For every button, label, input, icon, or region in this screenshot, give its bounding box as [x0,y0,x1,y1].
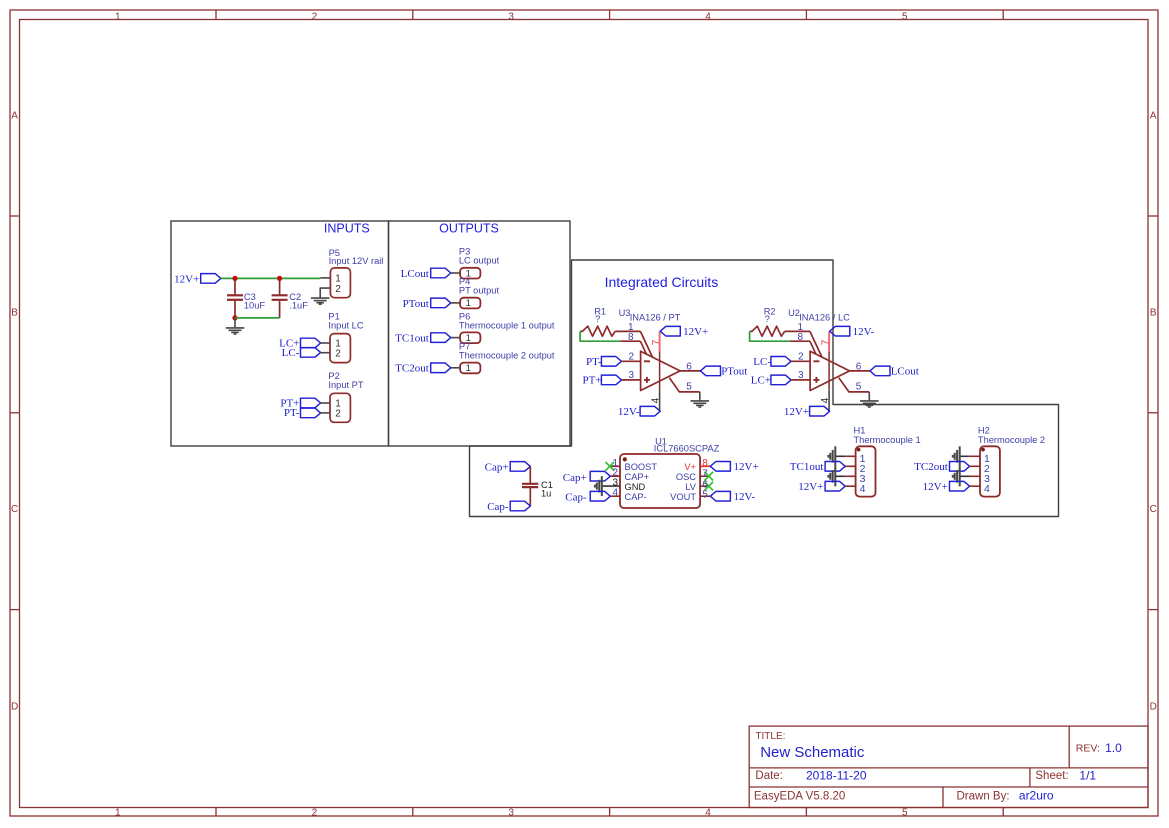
svg-text:GND: GND [625,482,646,492]
connector P7 [460,363,480,374]
pin 4 wire [828,390,830,411]
pin 2 stub [845,465,855,467]
svg-text:1: 1 [466,298,471,309]
svg-text:1: 1 [115,11,121,22]
svg-text:4: 4 [860,483,866,495]
svg-text:12V+: 12V+ [784,406,809,418]
pin 4 stub [610,495,620,497]
svg-text:5: 5 [902,808,908,819]
pin 1 stub [845,455,855,457]
svg-text:Sheet:: Sheet: [1035,770,1068,782]
svg-text:Input LC: Input LC [328,321,363,331]
pin 7 stub [700,475,710,477]
pin 3 wire [791,379,810,381]
svg-text:3: 3 [508,11,514,22]
svg-text:2: 2 [628,352,634,363]
svg-text:3: 3 [798,370,804,381]
wire 12V+ rail [221,277,320,279]
svg-text:PT-: PT- [586,356,602,368]
svg-text:8: 8 [628,332,634,343]
svg-text:12V-: 12V- [618,406,640,418]
pin wire P1.1 [321,342,330,344]
title block [749,726,1148,807]
svg-text:ar2uro: ar2uro [1019,789,1054,803]
svg-text:REV:: REV: [1076,743,1100,755]
svg-text:TC2out: TC2out [395,363,429,375]
svg-text:TITLE:: TITLE: [755,731,785,742]
svg-text:C: C [1150,504,1157,515]
svg-text:7: 7 [702,468,708,479]
svg-text:LCout: LCout [891,366,919,378]
svg-text:BOOST: BOOST [625,462,658,472]
ground at pin 3 (rotated) [601,476,603,496]
pin 3 wire [622,379,641,381]
svg-text:PTout: PTout [403,298,429,310]
resistor R1 [580,326,615,336]
svg-text:10uF: 10uF [244,301,266,311]
ground at pin 1 (rotated) [834,446,836,466]
svg-text:12V-: 12V- [853,326,875,338]
svg-text:New Schematic: New Schematic [760,744,865,761]
pin 2 stub [970,465,980,467]
pin 1 marker dot [623,457,627,461]
svg-text:Cap-: Cap- [487,501,509,513]
svg-text:?: ? [765,314,770,324]
Integrated Circuits region box [470,260,1059,517]
pin 6 wire [850,370,870,372]
connector P3 [460,268,480,279]
svg-text:4: 4 [705,808,711,819]
net flag LCout at pin 6 [870,366,890,376]
no-connect X at pin 7 [705,472,714,481]
capacitor C2 [279,278,281,294]
plus symbol [813,379,819,381]
svg-text:5: 5 [686,382,692,393]
wire P5.2 to ground [320,288,330,298]
pin 1 stub [970,455,980,457]
wire pin 1 to ground [836,455,845,457]
pin 4 stub [970,485,980,487]
svg-text:Thermocouple 2: Thermocouple 2 [978,435,1045,445]
pin 6 stub [700,485,710,487]
junction at C2 top [277,276,282,281]
wire pin 1 to ground [960,455,969,457]
connector P4 [460,298,480,309]
pin 1 marker dot [857,448,861,452]
pin 7 highlighted segment [659,331,661,351]
svg-text:12V+: 12V+ [734,461,759,473]
net flag PTout at pin 6 [700,366,720,376]
svg-text:1: 1 [115,808,121,819]
plus symbol [644,379,650,381]
pin 6 wire [680,370,700,372]
pin 7 / pin 4 vertical wire [828,352,830,391]
svg-text:TC1out: TC1out [395,333,429,345]
pin wire P2.1 [321,402,330,404]
svg-text:A: A [11,111,18,122]
svg-text:12V+: 12V+ [683,326,708,338]
svg-text:D: D [11,702,18,713]
svg-text:5: 5 [902,11,908,22]
pin 5 wire [669,378,700,392]
svg-text:12V+: 12V+ [174,273,199,285]
svg-text:LC+: LC+ [751,375,771,387]
svg-text:2: 2 [335,348,341,359]
header H1 body [856,446,876,496]
pin 1 wire [615,330,640,332]
pin wire P2.2 [321,412,330,414]
svg-text:PT-: PT- [284,407,300,419]
svg-text:OSC: OSC [676,472,696,482]
svg-text:Thermocouple 1 output: Thermocouple 1 output [459,320,555,330]
connector P2 [330,393,350,422]
svg-text:8: 8 [702,458,708,469]
svg-text:4: 4 [612,488,618,499]
pin 3 stub [970,475,980,477]
svg-text:Thermocouple 1: Thermocouple 1 [854,435,921,445]
svg-text:Cap+: Cap+ [485,461,509,473]
svg-text:6: 6 [856,361,862,372]
minus symbol [813,360,819,362]
svg-text:H2: H2 [978,425,990,435]
svg-text:2018-11-20: 2018-11-20 [806,769,867,783]
pin 8 wire [790,340,810,342]
pin 4 wire [659,390,661,411]
svg-text:TC2out: TC2out [914,461,948,473]
INPUTS region box [171,221,389,446]
capacitor C1 [522,483,538,485]
pin 4 stub [845,485,855,487]
pin 3 wire to ground [602,485,620,487]
svg-text:CAP-: CAP- [625,492,647,502]
ground below C3 [234,318,236,328]
svg-text:2: 2 [335,284,341,295]
capacitor C3 [234,278,236,294]
pin 3 stub [845,475,855,477]
svg-text:7: 7 [821,339,832,345]
svg-text:OUTPUTS: OUTPUTS [439,222,499,236]
svg-text:LV: LV [685,482,696,492]
pin 2 wire [622,360,641,362]
svg-text:B: B [1150,307,1157,318]
ground at pin 5 [868,392,870,401]
svg-text:6: 6 [686,361,692,372]
svg-text:C: C [11,504,18,515]
svg-text:Cap-: Cap- [565,492,587,504]
header H2 body [980,446,1000,496]
svg-text:2: 2 [335,408,341,419]
wire C1 top [529,466,531,483]
pin wire P4.1 [451,302,460,304]
svg-text:LCout: LCout [401,268,429,280]
pin 2 stub [610,475,620,477]
pin wire P6.1 [451,337,460,339]
pin 2 wire [791,360,810,362]
svg-text:VOUT: VOUT [670,492,696,502]
svg-text:8: 8 [798,332,804,343]
pin 8 wire (V+) [700,465,710,467]
svg-text:H1: H1 [854,425,866,435]
op-amp U2 triangle [810,351,850,390]
junction at C3 bottom [232,315,237,320]
connector P5 [330,268,350,298]
svg-text:INPUTS: INPUTS [324,222,370,236]
svg-text:4: 4 [984,483,990,495]
svg-text:LC-: LC- [282,347,300,359]
pin 1 marker dot [981,448,985,452]
net flag 12V- at pin 5 [710,491,730,501]
IC U1 body [620,454,700,508]
svg-text:.1uF: .1uF [289,301,308,311]
svg-text:Drawn By:: Drawn By: [957,790,1010,802]
svg-text:CAP+: CAP+ [625,472,650,482]
svg-text:5: 5 [856,382,862,393]
svg-text:5: 5 [702,489,708,500]
ground at pin 1 (rotated) [959,446,961,466]
minus symbol [644,360,650,362]
pin 8 wire [620,340,640,342]
pin wire P7.1 [451,367,460,369]
no-connect X at pin 6 [705,482,714,491]
svg-text:LC-: LC- [753,356,771,368]
svg-text:12V-: 12V- [734,491,756,503]
svg-text:Cap+: Cap+ [563,472,587,484]
svg-text:7: 7 [651,339,662,345]
op-amp U3 triangle [641,351,681,390]
svg-text:INA126 / LC: INA126 / LC [799,312,850,322]
connector P6 [460,332,480,343]
pin 1 stub [610,465,620,467]
resistor R2 [750,326,785,336]
svg-text:PT+: PT+ [582,375,601,387]
ground at pin 5 [699,392,701,401]
svg-text:Date:: Date: [755,770,783,782]
svg-text:2: 2 [312,808,318,819]
svg-text:TC1out: TC1out [790,461,824,473]
wire resistor to pin 8 [750,331,790,341]
svg-text:LC output: LC output [459,256,500,266]
svg-text:?: ? [595,314,600,324]
svg-text:ICL7660SCPAZ: ICL7660SCPAZ [654,444,720,454]
wire C3 bottom to C2 bottom [235,317,280,319]
svg-text:Input 12V rail: Input 12V rail [329,256,384,266]
no-connect X at pin 1 [606,462,615,471]
svg-text:EasyEDA V5.8.20: EasyEDA V5.8.20 [754,790,845,802]
svg-text:1u: 1u [541,489,551,499]
net flag 12V+ at pin 8 [710,462,730,472]
svg-text:1/1: 1/1 [1079,769,1096,783]
svg-text:3: 3 [508,808,514,819]
ground at pin 3 (rotated) [834,466,836,486]
pin wire P1.2 [321,352,330,354]
wire pin 3 to ground [960,475,969,477]
svg-text:1.0: 1.0 [1105,741,1122,755]
svg-text:PTout: PTout [721,366,747,378]
svg-text:B: B [11,307,18,318]
pin 7 highlighted segment [828,331,830,351]
svg-text:Thermocouple 2 output: Thermocouple 2 output [459,350,555,360]
wire pin 3 to ground [836,475,845,477]
ground at pin 3 (rotated) [959,466,961,486]
svg-text:D: D [1150,702,1157,713]
svg-text:1: 1 [466,363,471,374]
svg-text:A: A [1150,111,1157,122]
svg-text:12V+: 12V+ [798,481,823,493]
pin 5 stub [700,495,710,497]
svg-text:3: 3 [628,370,634,381]
svg-text:V+: V+ [684,462,696,472]
svg-text:Input PT: Input PT [328,380,363,390]
connector P1 [330,334,350,363]
pin 5 wire [839,378,870,392]
junction at C3 top [232,276,237,281]
svg-text:4: 4 [705,11,711,22]
wire C1 bottom [529,488,531,507]
pin 1 wire [785,330,810,332]
pin wire P5.1 [320,277,330,279]
ground at P5 pin 2 [311,297,330,299]
OUTPUTS region box [389,221,571,446]
pin 7 / pin 4 vertical wire [659,352,661,391]
svg-text:Integrated Circuits: Integrated Circuits [605,274,719,290]
svg-text:INA126 / PT: INA126 / PT [630,312,681,322]
svg-text:12V+: 12V+ [923,481,948,493]
svg-text:2: 2 [312,11,318,22]
svg-text:PT output: PT output [459,285,500,295]
wire resistor to pin 8 [580,331,620,341]
svg-text:2: 2 [798,352,804,363]
pin wire P3.1 [451,272,460,274]
